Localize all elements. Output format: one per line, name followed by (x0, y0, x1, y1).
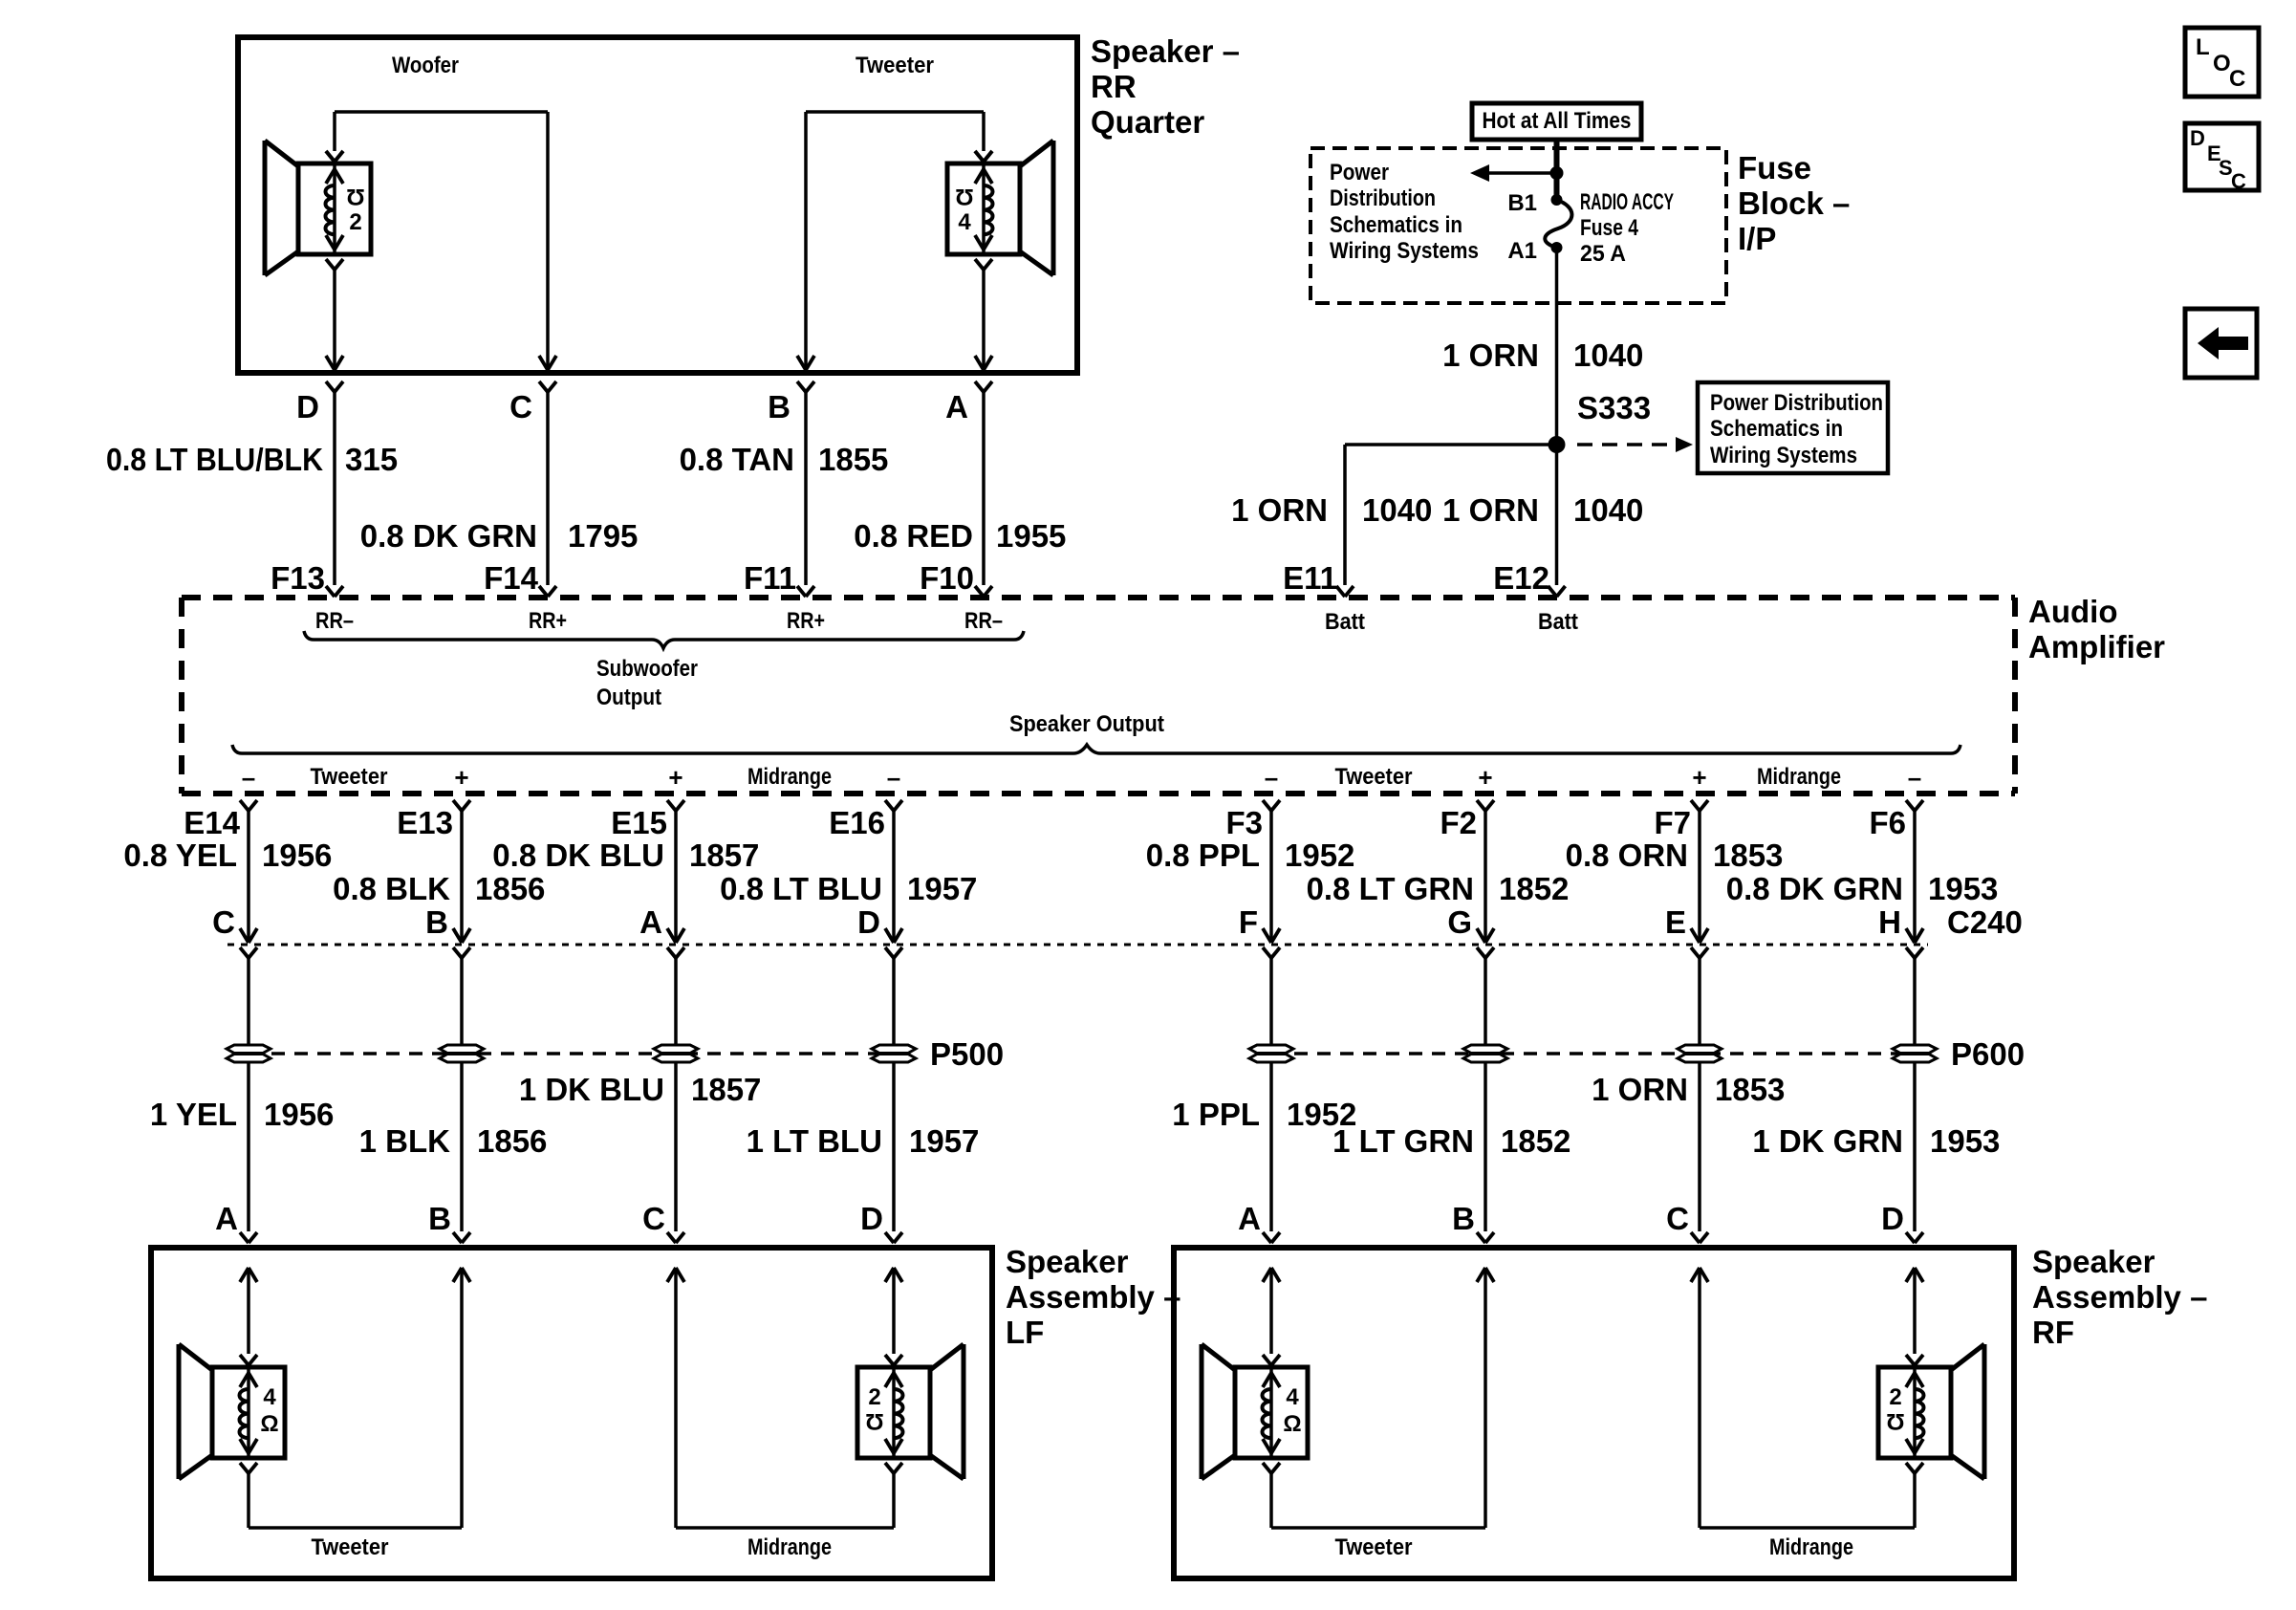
svg-text:0.8 DK GRN: 0.8 DK GRN (1726, 871, 1903, 906)
svg-text:D: D (860, 1201, 883, 1236)
svg-text:Assembly –: Assembly – (1006, 1279, 1180, 1315)
svg-text:Block –: Block – (1738, 185, 1850, 221)
svg-text:C: C (212, 904, 235, 940)
svg-text:Power: Power (1330, 160, 1389, 185)
svg-text:Quarter: Quarter (1091, 104, 1204, 140)
svg-text:Tweeter: Tweeter (312, 1534, 389, 1560)
svg-text:Assembly –: Assembly – (2032, 1279, 2207, 1315)
svg-text:0.8 LT BLU/BLK: 0.8 LT BLU/BLK (106, 442, 323, 477)
svg-text:Woofer: Woofer (392, 53, 459, 78)
svg-text:1040: 1040 (1573, 337, 1643, 373)
svg-text:1957: 1957 (909, 1123, 979, 1159)
svg-text:RR: RR (1091, 69, 1137, 104)
svg-text:1 DK BLU: 1 DK BLU (519, 1072, 664, 1107)
svg-text:1852: 1852 (1499, 871, 1569, 906)
svg-text:E13: E13 (397, 805, 453, 840)
svg-text:F2: F2 (1440, 805, 1477, 840)
svg-text:Schematics in: Schematics in (1330, 212, 1462, 238)
svg-text:E11: E11 (1283, 560, 1337, 596)
svg-text:–: – (242, 763, 255, 792)
svg-text:D: D (2190, 126, 2205, 150)
svg-text:1953: 1953 (1928, 871, 1998, 906)
svg-text:C240: C240 (1947, 904, 2023, 940)
svg-text:Fuse: Fuse (1738, 150, 1811, 185)
svg-text:RR–: RR– (315, 608, 354, 634)
svg-text:RR+: RR+ (787, 608, 825, 634)
svg-text:315: 315 (345, 442, 398, 477)
svg-text:Midrange: Midrange (747, 764, 832, 790)
svg-text:Midrange: Midrange (747, 1534, 832, 1560)
svg-text:RF: RF (2032, 1315, 2074, 1350)
svg-text:1 ORN: 1 ORN (1231, 492, 1328, 528)
svg-text:F7: F7 (1654, 805, 1691, 840)
svg-text:Schematics in: Schematics in (1710, 416, 1843, 442)
svg-text:B: B (1452, 1201, 1475, 1236)
svg-text:1853: 1853 (1713, 838, 1783, 873)
svg-text:F13: F13 (271, 560, 325, 596)
svg-text:Ω: Ω (955, 184, 973, 209)
svg-text:E14: E14 (184, 805, 240, 840)
svg-text:4: 4 (958, 209, 971, 235)
svg-text:Wiring Systems: Wiring Systems (1330, 238, 1479, 264)
svg-text:1795: 1795 (568, 518, 638, 554)
svg-text:A: A (1238, 1201, 1261, 1236)
svg-text:Audio: Audio (2028, 594, 2117, 629)
svg-text:Distribution: Distribution (1330, 185, 1436, 211)
svg-text:0.8 ORN: 0.8 ORN (1566, 838, 1688, 873)
svg-text:Fuse 4: Fuse 4 (1580, 215, 1639, 241)
svg-text:–: – (1908, 763, 1921, 792)
svg-text:–: – (1265, 763, 1278, 792)
svg-text:P500: P500 (930, 1036, 1004, 1072)
svg-text:A: A (639, 904, 662, 940)
svg-text:4: 4 (263, 1384, 276, 1410)
svg-text:C: C (2229, 66, 2245, 92)
svg-text:0.8 BLK: 0.8 BLK (333, 871, 450, 906)
svg-text:Ω: Ω (346, 184, 364, 209)
svg-text:+: + (1478, 763, 1492, 792)
svg-text:Batt: Batt (1538, 609, 1578, 635)
svg-text:1 YEL: 1 YEL (150, 1097, 237, 1132)
svg-text:Midrange: Midrange (1769, 1534, 1853, 1560)
svg-text:1853: 1853 (1715, 1072, 1785, 1107)
svg-text:C: C (509, 389, 532, 424)
svg-text:Subwoofer: Subwoofer (596, 656, 698, 682)
svg-text:Ω: Ω (260, 1411, 278, 1437)
svg-text:O: O (2213, 51, 2231, 76)
svg-text:1 DK GRN: 1 DK GRN (1752, 1123, 1903, 1159)
svg-text:Speaker: Speaker (2032, 1244, 2155, 1279)
svg-text:F3: F3 (1225, 805, 1263, 840)
svg-text:B: B (425, 904, 448, 940)
svg-text:P600: P600 (1951, 1036, 2025, 1072)
svg-text:–: – (887, 763, 900, 792)
svg-text:1 BLK: 1 BLK (359, 1123, 451, 1159)
svg-text:Ω: Ω (1283, 1411, 1301, 1437)
svg-text:E: E (1665, 904, 1686, 940)
svg-text:C: C (642, 1201, 665, 1236)
svg-text:1856: 1856 (475, 871, 545, 906)
svg-text:B: B (768, 389, 791, 424)
svg-text:1852: 1852 (1501, 1123, 1570, 1159)
svg-text:A1: A1 (1507, 238, 1537, 264)
svg-text:D: D (1881, 1201, 1904, 1236)
svg-text:F14: F14 (484, 560, 539, 596)
svg-text:I/P: I/P (1738, 221, 1776, 256)
svg-text:L: L (2196, 34, 2210, 60)
svg-text:+: + (1692, 763, 1706, 792)
svg-text:E16: E16 (829, 805, 885, 840)
svg-text:0.8 TAN: 0.8 TAN (680, 442, 794, 477)
svg-text:0.8 LT GRN: 0.8 LT GRN (1307, 871, 1474, 906)
svg-text:1855: 1855 (818, 442, 888, 477)
svg-text:1 ORN: 1 ORN (1592, 1072, 1688, 1107)
svg-text:H: H (1878, 904, 1901, 940)
svg-text:E15: E15 (611, 805, 667, 840)
svg-text:1956: 1956 (264, 1097, 334, 1132)
svg-text:A: A (945, 389, 968, 424)
svg-text:0.8 YEL: 0.8 YEL (123, 838, 237, 873)
svg-text:D: D (857, 904, 880, 940)
svg-text:+: + (668, 763, 682, 792)
svg-text:Tweeter: Tweeter (1335, 764, 1413, 790)
svg-text:Speaker: Speaker (1006, 1244, 1129, 1279)
svg-text:1952: 1952 (1285, 838, 1354, 873)
svg-text:Tweeter: Tweeter (1335, 1534, 1413, 1560)
svg-text:0.8 LT BLU: 0.8 LT BLU (720, 871, 882, 906)
svg-text:LF: LF (1006, 1315, 1044, 1350)
svg-text:Ω: Ω (1886, 1408, 1904, 1434)
svg-text:1857: 1857 (689, 838, 759, 873)
svg-text:F11: F11 (744, 560, 796, 596)
svg-text:E12: E12 (1493, 560, 1549, 596)
svg-text:RR–: RR– (964, 608, 1003, 634)
svg-text:1040: 1040 (1362, 492, 1432, 528)
svg-text:1 LT GRN: 1 LT GRN (1332, 1123, 1474, 1159)
svg-text:+: + (454, 763, 468, 792)
svg-text:C: C (1666, 1201, 1689, 1236)
svg-text:1956: 1956 (262, 838, 332, 873)
svg-text:1 ORN: 1 ORN (1442, 492, 1539, 528)
svg-text:0.8 RED: 0.8 RED (854, 518, 973, 554)
svg-text:Batt: Batt (1325, 609, 1365, 635)
svg-text:Hot at All Times: Hot at All Times (1483, 108, 1632, 134)
svg-text:Power Distribution: Power Distribution (1710, 390, 1883, 416)
svg-text:0.8 PPL: 0.8 PPL (1146, 838, 1260, 873)
svg-text:1856: 1856 (477, 1123, 547, 1159)
svg-text:Speaker Output: Speaker Output (1009, 711, 1164, 737)
svg-text:Wiring Systems: Wiring Systems (1710, 443, 1857, 468)
svg-text:4: 4 (1286, 1384, 1299, 1410)
svg-text:1 ORN: 1 ORN (1442, 337, 1539, 373)
svg-text:2: 2 (1889, 1384, 1901, 1410)
svg-text:Ω: Ω (865, 1408, 883, 1434)
svg-text:Tweeter: Tweeter (311, 764, 388, 790)
svg-text:0.8 DK BLU: 0.8 DK BLU (492, 838, 664, 873)
svg-text:F6: F6 (1869, 805, 1906, 840)
svg-text:B1: B1 (1507, 190, 1537, 216)
svg-text:B: B (428, 1201, 451, 1236)
svg-text:1040: 1040 (1573, 492, 1643, 528)
svg-text:D: D (296, 389, 319, 424)
svg-text:1 PPL: 1 PPL (1172, 1097, 1260, 1132)
svg-text:A: A (215, 1201, 238, 1236)
svg-text:1953: 1953 (1930, 1123, 2000, 1159)
svg-text:Speaker –: Speaker – (1091, 33, 1240, 69)
svg-text:25 A: 25 A (1580, 241, 1626, 267)
svg-text:F10: F10 (920, 560, 974, 596)
svg-text:2: 2 (868, 1384, 880, 1410)
svg-text:2: 2 (349, 209, 361, 235)
svg-text:Midrange: Midrange (1757, 764, 1841, 790)
svg-text:1957: 1957 (907, 871, 977, 906)
svg-text:Output: Output (596, 685, 661, 710)
svg-text:0.8 DK GRN: 0.8 DK GRN (360, 518, 537, 554)
svg-text:F: F (1239, 904, 1258, 940)
svg-text:S333: S333 (1577, 390, 1651, 425)
svg-text:C: C (2231, 169, 2246, 193)
svg-text:Amplifier: Amplifier (2028, 629, 2165, 664)
svg-text:1955: 1955 (996, 518, 1066, 554)
svg-text:G: G (1447, 904, 1472, 940)
svg-text:Tweeter: Tweeter (856, 53, 934, 78)
svg-text:RADIO ACCY: RADIO ACCY (1580, 189, 1674, 215)
svg-text:1 LT BLU: 1 LT BLU (747, 1123, 882, 1159)
svg-text:1857: 1857 (691, 1072, 761, 1107)
svg-text:RR+: RR+ (529, 608, 567, 634)
